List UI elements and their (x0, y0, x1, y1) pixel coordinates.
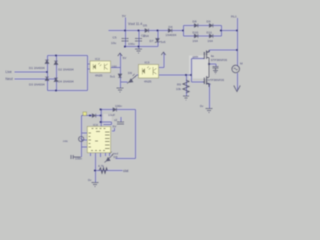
load source circle (232, 65, 240, 73)
svg-text:D3 1N4004: D3 1N4004 (29, 83, 45, 87)
capacitor C6 plates (117, 122, 124, 124)
svg-text:Live: Live (6, 70, 12, 74)
wire mcu right vertical (135, 110, 137, 159)
diode D6 diagonal (127, 75, 137, 84)
node array merge (220, 30, 222, 32)
svg-text:1N4: 1N4 (143, 34, 149, 38)
node rail top (236, 30, 238, 32)
wire opto1 input pins (88, 64, 91, 69)
wire bridge column 2 (56, 56, 58, 91)
signal input circle at mcu (79, 136, 84, 141)
svg-text:4.7k: 4.7k (98, 164, 104, 168)
wire opto2 collector to supply arrow (159, 52, 164, 68)
svg-text:0v: 0v (200, 104, 204, 108)
wire gate M2 (192, 81, 204, 83)
wire mcu right pin stub (112, 128, 115, 131)
wire diode array row1 (184, 25, 222, 27)
wire cap C6 stem (120, 117, 122, 122)
svg-text:D10: D10 (193, 30, 199, 34)
diode D2 bridge col2 top (54, 61, 58, 64)
wire ground3 stem (138, 47, 140, 50)
wire bridge top (48, 55, 88, 57)
svg-text:1N4: 1N4 (193, 39, 199, 43)
svg-text:D9: D9 (207, 20, 211, 24)
wire live input (15, 71, 48, 73)
led yellow chip on osc row (83, 112, 87, 116)
svg-text:x2: x2 (114, 118, 118, 122)
crystal body X1 (103, 114, 112, 125)
wire bridge right vertical to opto (87, 56, 89, 91)
wire zener branch vertical (120, 53, 122, 88)
svg-text:IC2: IC2 (95, 57, 100, 61)
wire bridge column 1 (47, 56, 49, 91)
wire gate node vertical (191, 59, 193, 83)
wire diode array split left (183, 26, 185, 37)
diode array row1 b (209, 24, 212, 27)
diode D4b on top bus (168, 29, 171, 32)
white module box behind MOSFETs (189, 56, 210, 79)
node M1 source (208, 63, 210, 65)
svg-text:mic: mic (63, 139, 68, 143)
node osc A (89, 115, 91, 117)
svg-text:D11: D11 (207, 30, 213, 34)
opto-coupler IC3 body (139, 65, 159, 79)
svg-text:D6: D6 (128, 71, 132, 75)
svg-text:100n: 100n (115, 104, 122, 108)
ground arrow under load (234, 86, 240, 92)
svg-text:0v: 0v (88, 178, 92, 182)
wire neutral input (15, 78, 57, 80)
wire C2 vertical (138, 31, 140, 47)
node C2 top (138, 30, 140, 32)
svg-text:M: M (240, 62, 243, 66)
node C2 bottom (138, 46, 140, 48)
wire D6 to opto2 (137, 74, 140, 76)
node rail load (236, 49, 238, 51)
capacitor C2 plates (135, 39, 142, 42)
svg-text:4b: 4b (208, 82, 212, 86)
svg-text:D7: D7 (150, 39, 154, 43)
node supply label (124, 30, 126, 32)
wire crystal loop (101, 122, 111, 125)
svg-text:100n: 100n (75, 156, 82, 160)
MOSFET Q2 (203, 64, 209, 87)
capacitor snubber plates (213, 67, 219, 69)
wire decoupling cap stem (81, 152, 83, 157)
node reset left (94, 170, 96, 172)
svg-text:D4 1N4004: D4 1N4004 (58, 79, 74, 83)
svg-text:Neut: Neut (6, 77, 13, 81)
svg-text:D5: D5 (143, 24, 147, 28)
svg-text:D4: D4 (169, 25, 173, 29)
diode array row2 a (194, 34, 197, 37)
node live-bridge (46, 71, 48, 73)
node osc B left (100, 109, 102, 111)
wire M1 drain to rail (209, 50, 211, 52)
node gate tee (190, 74, 192, 76)
capacitor decouple plates (71, 155, 81, 159)
wire mcu left pin stubs (82, 133, 89, 147)
svg-text:4N25: 4N25 (144, 80, 152, 84)
wire opto1 output (111, 67, 121, 69)
wire zener D7 vertical (157, 31, 159, 47)
MOSFET Q1 (203, 50, 209, 64)
wire opto2 emitter to gates (159, 74, 192, 76)
node gate R (185, 74, 187, 76)
svg-text:D8: D8 (193, 20, 197, 24)
supply up arrow at opto2 (161, 52, 165, 55)
svg-text:D2 1N4004: D2 1N4004 (58, 67, 74, 71)
wire bottom bus (126, 46, 159, 48)
wire gate M1 (192, 58, 205, 60)
diode D5 on top bus (145, 29, 148, 32)
node osc mid (100, 115, 102, 117)
node C1 bottom (124, 46, 126, 48)
wire top bus (109, 30, 184, 32)
diode on osc row A (92, 114, 95, 117)
svg-text:RL1: RL1 (231, 14, 237, 18)
diode D4 bridge col2 bottom (54, 78, 58, 81)
node osc low (100, 121, 102, 123)
wire M2 source to ground (209, 84, 211, 109)
wire osc bus B (101, 109, 135, 111)
wire osc left vertical (100, 110, 102, 127)
svg-text:10k: 10k (176, 87, 181, 91)
wire diode array row2 (184, 35, 222, 37)
svg-text:160: 160 (112, 65, 117, 69)
wire load bottom (237, 73, 239, 91)
wire supply net label stem (125, 18, 127, 31)
svg-text:STP36NF06: STP36NF06 (211, 58, 228, 62)
svg-text:R9: R9 (177, 82, 181, 86)
wire C1 vertical (125, 31, 127, 47)
svg-text:4N25: 4N25 (95, 74, 103, 78)
wire bridge bottom (48, 90, 88, 92)
svg-text:IC4: IC4 (93, 123, 98, 127)
svg-text:IC3: IC3 (145, 61, 150, 65)
diode array row2 b (209, 34, 212, 37)
capacitor C1 plates (71, 39, 219, 160)
svg-text:C5: C5 (113, 36, 117, 40)
node neutral-bridge (55, 78, 57, 80)
node D4 out (182, 30, 184, 32)
svg-text:100u: 100u (128, 42, 135, 46)
svg-text:5v6: 5v6 (161, 40, 166, 44)
wire diode array merge right (221, 26, 223, 37)
svg-text:5v1: 5v1 (110, 75, 115, 79)
zener after opto1 (118, 74, 121, 77)
wire snubber branch (210, 64, 217, 67)
svg-text:stat: stat (123, 169, 129, 173)
wire mcu bottom pins (91, 153, 110, 183)
node bridge top (55, 55, 57, 57)
wire drain rail y50 (210, 49, 238, 51)
svg-text:Vout 11.4: Vout 11.4 (128, 22, 142, 26)
wire osc row A (82, 115, 102, 117)
wire to D6 (121, 81, 128, 83)
wire mcu left rail (81, 116, 83, 153)
diode D1 bridge col1 top (45, 60, 49, 63)
ground snubber (213, 68, 218, 74)
wire led2 row (116, 158, 136, 160)
wire diode array output to rail (222, 30, 238, 32)
svg-text:10uF: 10uF (108, 113, 115, 117)
diode array row1 a (194, 24, 197, 27)
svg-text:D1 1N4004: D1 1N4004 (29, 66, 45, 70)
ground mcu (92, 183, 99, 187)
microcontroller IC4 body (87, 127, 110, 153)
svg-text:red: red (114, 151, 119, 155)
diode on osc bus (113, 108, 116, 111)
diode D3 bridge col1 bottom (45, 77, 49, 80)
resistor on reset row zigzag (99, 168, 108, 173)
wire right rail top (237, 18, 239, 67)
svg-text:10u: 10u (111, 41, 116, 45)
led2 diagonal under mcu (105, 155, 114, 163)
svg-text:1N4004: 1N4004 (166, 33, 177, 37)
ground at C2 bottom (135, 49, 142, 53)
ground R pulldown (183, 96, 189, 100)
ground after zener (opto1) (92, 49, 241, 187)
wire R pulldown vertical (186, 75, 188, 96)
resistor R pulldown zigzag (183, 80, 189, 93)
node zener top (157, 30, 159, 32)
wire reset row (96, 170, 123, 172)
node bridge bottom (55, 90, 57, 92)
ground M2 source (206, 109, 213, 113)
svg-text:1N4: 1N4 (208, 39, 214, 43)
svg-text:gate: gate (193, 54, 199, 58)
opto-coupler IC2 body (90, 61, 111, 73)
zener D7 between buses (156, 39, 159, 42)
